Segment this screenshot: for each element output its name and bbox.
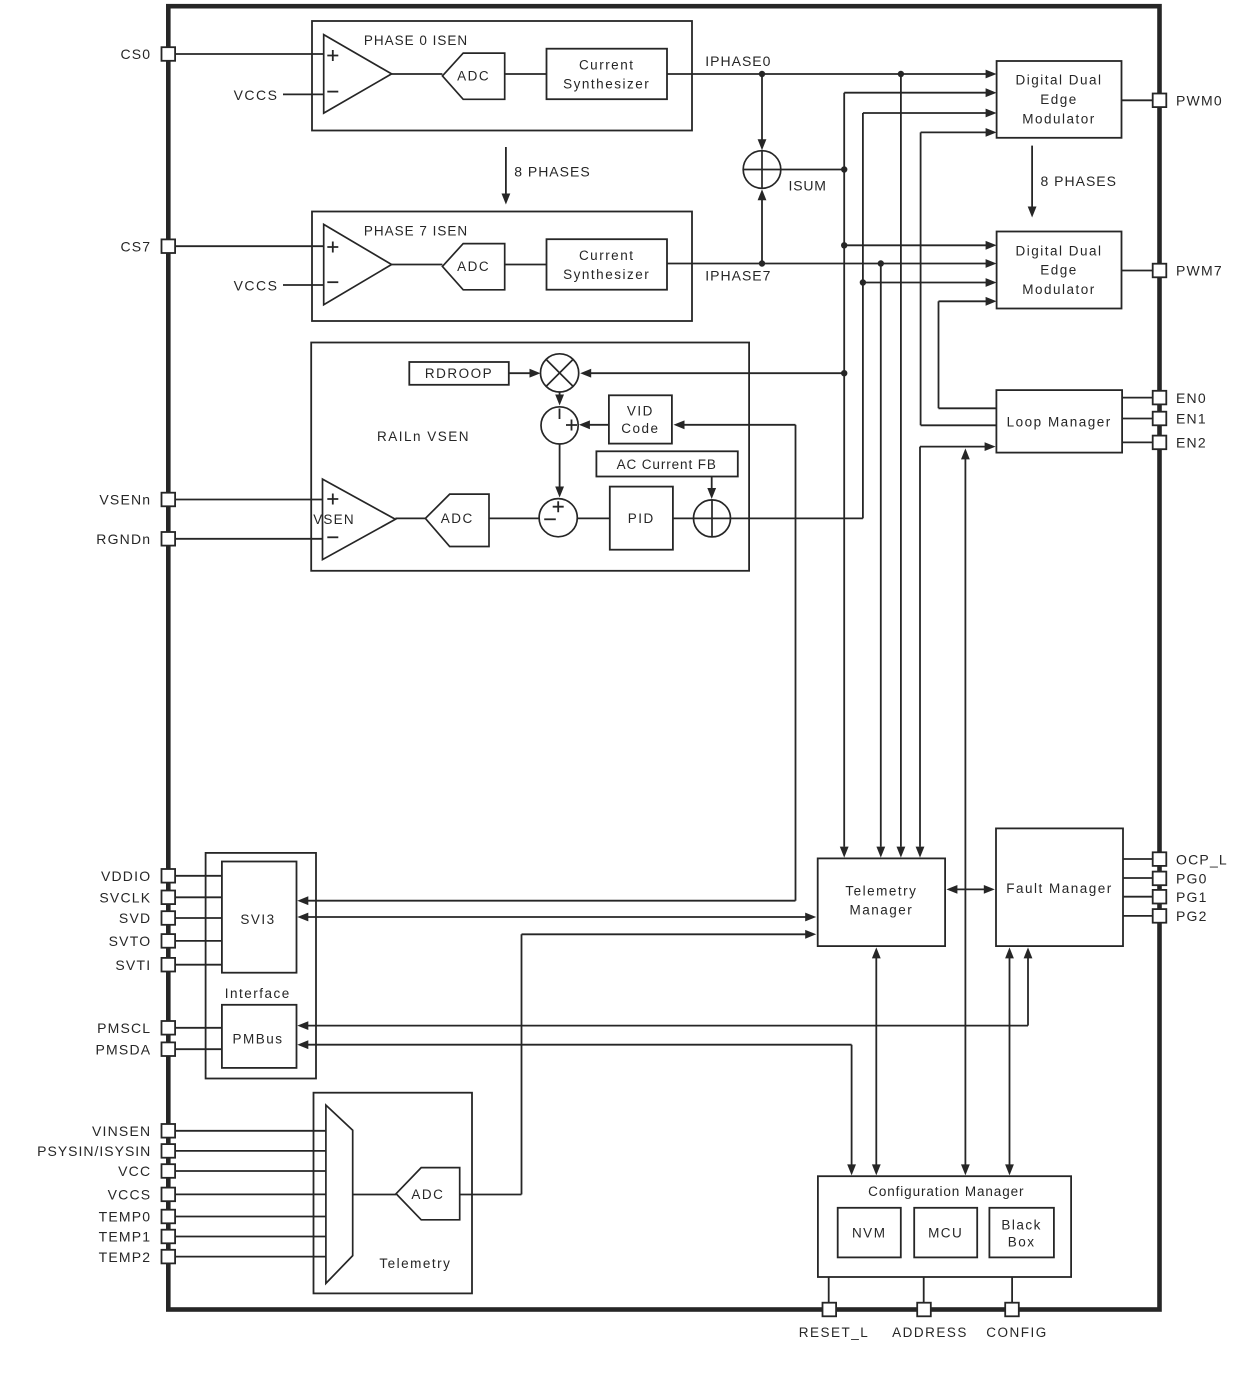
wire PG2	[1123, 915, 1154, 917]
svg-text:VSEN: VSEN	[313, 512, 355, 527]
svg-text:IPHASE0: IPHASE0	[705, 53, 771, 69]
svg-text:Black: Black	[1001, 1217, 1042, 1232]
RDROOP box	[409, 362, 509, 385]
svg-text:PHASE 7 ISEN: PHASE 7 ISEN	[364, 224, 468, 239]
svg-text:NVM: NVM	[852, 1226, 887, 1241]
svg-text:SVD: SVD	[119, 910, 151, 926]
wire Loop Manager row2 horizontal	[921, 424, 997, 426]
wire ADC to summer2	[489, 517, 540, 519]
wire Loop Manager to modulator0 input4 vertical	[920, 132, 922, 425]
block PHASE 0 ISEN outline	[312, 21, 692, 131]
wire ADC to Current Synthesizer phase0	[505, 73, 547, 75]
pin PG0	[1153, 871, 1208, 887]
wire PMBus-CM vertical	[851, 1045, 853, 1170]
svg-text:PG0: PG0	[1176, 871, 1208, 887]
adder AC current node	[694, 500, 731, 537]
wire telemetry ADC output	[460, 1194, 522, 1196]
wire ISUM to multiplier	[590, 372, 845, 374]
arrow 8 PHASES between modulators	[1028, 146, 1117, 218]
svg-text:VCCS: VCCS	[234, 87, 279, 103]
arrow 8 PHASES between ISEN blocks	[502, 147, 591, 205]
wire VCCS to op-amp -	[283, 93, 324, 95]
wire PMSDA to PMBus	[168, 1048, 222, 1050]
wire AC Current FB to adder	[711, 477, 713, 492]
telemetry input mux trapezoid	[326, 1105, 353, 1283]
multiplier droop X node	[541, 354, 579, 392]
svg-text:RDROOP: RDROOP	[425, 366, 493, 381]
wire telemetry ADC vertical	[521, 934, 523, 1194]
svg-text:PMBus: PMBus	[232, 1032, 283, 1047]
wire PMSCL to PMBus	[168, 1027, 222, 1029]
wire op-amp to ADC phase0	[392, 73, 443, 75]
svg-text:CONFIG: CONFIG	[986, 1325, 1048, 1340]
block SVI3	[222, 862, 297, 973]
wire ISUM output	[781, 169, 844, 171]
block Loop Manager	[996, 390, 1122, 453]
pin CONFIG	[986, 1303, 1048, 1340]
svg-text:VCCS: VCCS	[234, 277, 279, 293]
wire CONFIG stub	[1011, 1277, 1013, 1303]
pin PSYSIN/ISYSIN	[37, 1143, 175, 1159]
wire Loop Manager row1 horizontal	[939, 407, 997, 409]
wire VINSEN to mux	[168, 1130, 326, 1132]
svg-text:VCC: VCC	[118, 1163, 151, 1179]
svg-text:PWM0: PWM0	[1176, 93, 1223, 109]
svg-text:Fault Manager: Fault Manager	[1006, 881, 1113, 896]
svg-text:Edge: Edge	[1040, 92, 1078, 107]
wire PID output to bus	[731, 517, 863, 519]
wire VSENn to VSEN amp +	[168, 499, 323, 501]
svg-text:RESET_L: RESET_L	[799, 1325, 870, 1340]
svg-text:PMSCL: PMSCL	[97, 1020, 151, 1036]
wire TEMP2 to mux	[168, 1256, 326, 1258]
svg-text:IPHASE7: IPHASE7	[705, 268, 771, 284]
wire ADDRESS stub	[923, 1277, 925, 1303]
op-amp PHASE7 current sense	[324, 224, 392, 304]
wire ISUM bus vertical to Telemetry Manager	[843, 93, 845, 847]
svg-text:EN2: EN2	[1176, 435, 1207, 451]
AC Current FB box	[596, 451, 737, 476]
wire summer2 to PID	[577, 517, 610, 519]
svg-text:PHASE 0 ISEN: PHASE 0 ISEN	[364, 33, 468, 48]
svg-text:TEMP2: TEMP2	[99, 1249, 152, 1265]
ADC VSEN	[425, 494, 489, 546]
wire RESET_L stub	[828, 1277, 830, 1303]
chip outline border	[168, 6, 1159, 1309]
wire PG0	[1123, 877, 1154, 879]
pin VDDIO	[101, 868, 175, 884]
junction IPHASE7 to ISUM	[759, 260, 765, 266]
pin TEMP1	[99, 1229, 175, 1245]
svg-text:8 PHASES: 8 PHASES	[514, 163, 590, 179]
wire Telemetry Manager to Fault Manager bidirectional	[955, 888, 986, 890]
wire Telemetry Manager to Configuration Manager vertical	[875, 956, 877, 1170]
pin SVTO	[109, 933, 175, 949]
junction PID bus to modulator7 input3	[860, 279, 866, 285]
svg-text:Interface: Interface	[225, 986, 291, 1001]
wire TEMP1 to mux	[168, 1236, 326, 1238]
wire SVI3 net to VID Code	[682, 424, 796, 426]
wire VCC to mux	[168, 1170, 326, 1172]
wire EN0	[1122, 397, 1153, 399]
MCU box	[914, 1208, 977, 1258]
wire Loop Manager row3 horizontal	[920, 446, 988, 448]
wire PID output vertical bus	[862, 113, 864, 518]
wire to modulator0 input4	[921, 131, 990, 133]
wire ISUM bus to modulator0 input2	[844, 92, 990, 94]
svg-text:Synthesizer: Synthesizer	[563, 77, 650, 92]
block Telemetry Manager	[818, 858, 945, 946]
svg-text:Modulator: Modulator	[1022, 282, 1096, 297]
wire op-amp to ADC phase7	[392, 264, 443, 266]
pin EN1	[1153, 411, 1207, 427]
junction IPHASE0 to telemetry bus	[898, 71, 904, 77]
svg-text:AC Current FB: AC Current FB	[617, 457, 717, 472]
wire IPHASE0 down into ISUM	[761, 74, 763, 140]
op-amp VSEN differential	[313, 479, 395, 559]
wire IPHASE0 bus vertical to Telemetry Manager	[900, 74, 902, 847]
block Digital Dual Edge Modulator 7	[997, 232, 1122, 309]
summing node error	[539, 499, 577, 537]
pin VINSEN	[92, 1123, 175, 1139]
svg-text:Current: Current	[579, 58, 635, 73]
block PMBus	[222, 1005, 297, 1068]
wire VCCS to op-amp - phase7	[283, 284, 324, 286]
svg-text:PMSDA: PMSDA	[96, 1041, 152, 1057]
pin SVTI	[115, 957, 175, 973]
junction ISUM bus to droop multiplier	[841, 370, 847, 376]
svg-text:TEMP1: TEMP1	[99, 1229, 152, 1245]
Black Box box	[989, 1208, 1054, 1258]
svg-text:Manager: Manager	[850, 903, 914, 918]
ADC telemetry	[396, 1168, 460, 1220]
junction ISUM bus to modulator7 input1	[841, 242, 847, 248]
svg-text:SVTO: SVTO	[109, 933, 152, 949]
svg-text:Synthesizer: Synthesizer	[563, 267, 650, 282]
block Interface outline	[206, 853, 316, 1079]
wire EN1	[1122, 418, 1153, 420]
svg-text:VINSEN: VINSEN	[92, 1123, 151, 1139]
wire PSYSIN to mux	[168, 1150, 326, 1152]
op-amp PHASE0 current sense	[324, 35, 392, 114]
block Configuration Manager	[818, 1176, 1071, 1277]
block Fault Manager	[996, 828, 1123, 946]
wire Loop Manager to modulator7 input4 vertical	[938, 301, 940, 408]
pin PG2	[1153, 908, 1208, 924]
svg-text:VID: VID	[627, 404, 654, 419]
pin PWM0	[1153, 93, 1223, 109]
svg-text:ADC: ADC	[441, 511, 474, 526]
svg-text:PG1: PG1	[1176, 889, 1208, 905]
wire RDROOP to multiplier	[509, 372, 532, 374]
svg-text:ADC: ADC	[457, 69, 490, 84]
wire ADC to Current Synthesizer phase7	[505, 264, 547, 266]
svg-text:Current: Current	[579, 248, 635, 263]
wire SVD to SVI3	[168, 917, 222, 919]
pin PWM7	[1153, 263, 1223, 279]
wire SVCLK to SVI3	[168, 896, 222, 898]
svg-text:MCU: MCU	[928, 1226, 963, 1241]
svg-text:CS7: CS7	[120, 238, 151, 254]
pin CS7	[120, 238, 175, 254]
pin VCC	[118, 1163, 175, 1179]
wire PG1	[1123, 896, 1154, 898]
wire PWM7 output	[1122, 270, 1154, 272]
wire SVI3 to Telemetry Manager bidirectional	[303, 916, 810, 918]
pin PMSCL	[97, 1020, 175, 1036]
wire TEMP0 to mux	[168, 1216, 326, 1218]
wire to modulator7 input4	[939, 300, 991, 302]
wire PMBus to Fault Manager net	[303, 1025, 1028, 1027]
Current Synthesizer PHASE7	[547, 239, 668, 290]
svg-text:VCCS: VCCS	[108, 1187, 152, 1203]
wire VID net into SVI3	[303, 900, 796, 902]
svg-text:8 PHASES: 8 PHASES	[1041, 173, 1117, 189]
wire PID bus to modulator7 input3	[863, 282, 990, 284]
pin CS0	[120, 46, 175, 62]
pin SVCLK	[99, 890, 175, 906]
wire SVTO to SVI3	[168, 940, 222, 942]
wire IPHASE7 net	[667, 263, 990, 265]
pin VSENn	[99, 492, 175, 508]
wire RGNDn to VSEN amp -	[168, 538, 323, 540]
PID box	[610, 487, 673, 550]
svg-text:ADDRESS: ADDRESS	[892, 1325, 968, 1340]
svg-text:Modulator: Modulator	[1022, 111, 1096, 126]
svg-text:ISUM: ISUM	[789, 178, 827, 194]
svg-text:ADC: ADC	[411, 1187, 444, 1202]
pin RGNDn	[96, 531, 175, 547]
wire PMBus to Configuration Manager net	[303, 1044, 852, 1046]
pin VCCS	[108, 1187, 176, 1203]
wire VCCS to mux	[168, 1193, 326, 1195]
wire EN2	[1122, 441, 1153, 443]
wire Loop Manager row3 to Telemetry Manager vertical	[919, 447, 921, 847]
pin RESET_L	[799, 1303, 870, 1340]
pin OCP_L	[1153, 851, 1228, 867]
wire IPHASE7 up into ISUM	[761, 200, 763, 264]
wire VID Code to summer1	[587, 424, 609, 426]
pin PG1	[1153, 889, 1208, 905]
pin SVD	[119, 910, 175, 926]
pin EN2	[1153, 435, 1207, 451]
svg-text:Telemetry: Telemetry	[379, 1256, 451, 1271]
svg-text:Digital Dual: Digital Dual	[1015, 243, 1102, 258]
wire VDDIO to SVI3	[168, 875, 222, 877]
wire IPHASE0 net	[667, 73, 990, 75]
Current Synthesizer PHASE0	[547, 49, 668, 99]
pin TEMP0	[99, 1209, 175, 1225]
wire CS0 to op-amp +	[168, 53, 324, 55]
summing node VID minus droop	[541, 407, 578, 444]
wire OCP_L	[1123, 858, 1154, 860]
pin TEMP2	[99, 1249, 175, 1265]
svg-text:Loop Manager: Loop Manager	[1007, 415, 1112, 430]
svg-text:Edge: Edge	[1040, 263, 1078, 278]
svg-text:PID: PID	[628, 511, 655, 526]
block Digital Dual Edge Modulator 0	[997, 61, 1122, 138]
wire multiplier to summer1	[559, 392, 561, 398]
wire Configuration Manager to Loop Manager row3 vertical	[964, 459, 966, 1170]
svg-text:EN1: EN1	[1176, 411, 1207, 427]
pin EN0	[1153, 390, 1207, 406]
wire PMBus-FM vertical	[1027, 956, 1029, 1026]
svg-text:Code: Code	[621, 421, 659, 436]
ADC PHASE7	[442, 244, 504, 290]
svg-text:VDDIO: VDDIO	[101, 868, 151, 884]
wire mux to telemetry ADC	[353, 1194, 396, 1196]
svg-text:SVCLK: SVCLK	[99, 890, 151, 906]
svg-text:PG2: PG2	[1176, 908, 1208, 924]
wire summer1 to summer2	[559, 444, 561, 490]
wire CS7 to op-amp +	[168, 245, 324, 247]
wire Fault Manager to Configuration Manager vertical	[1009, 956, 1011, 1170]
svg-text:ADC: ADC	[457, 259, 490, 274]
svg-text:SVTI: SVTI	[115, 957, 151, 973]
block PHASE 7 ISEN outline	[312, 212, 692, 322]
svg-text:TEMP0: TEMP0	[99, 1209, 152, 1225]
NVM box	[838, 1208, 901, 1258]
wire telemetry ADC to Telemetry Manager	[522, 933, 811, 935]
junction IPHASE7 to telemetry bus	[878, 260, 884, 266]
svg-text:EN0: EN0	[1176, 390, 1207, 406]
ADC PHASE0	[442, 53, 504, 99]
wire VSEN amp to ADC	[395, 517, 425, 519]
block Telemetry outline	[314, 1093, 473, 1294]
svg-text:CS0: CS0	[120, 46, 151, 62]
summing node ISUM	[743, 151, 781, 189]
svg-text:Box: Box	[1008, 1235, 1036, 1250]
block RAILn VSEN outline	[311, 343, 749, 571]
svg-text:Digital Dual: Digital Dual	[1015, 73, 1102, 88]
wire SVTI to SVI3	[168, 964, 222, 966]
wire VID net vertical	[795, 425, 797, 901]
svg-text:PSYSIN/ISYSIN: PSYSIN/ISYSIN	[37, 1143, 151, 1159]
svg-text:Configuration Manager: Configuration Manager	[868, 1184, 1024, 1199]
junction IPHASE0 to ISUM	[759, 71, 765, 77]
wire PWM0 output	[1122, 99, 1154, 101]
wire IPHASE7 bus vertical to Telemetry Manager	[880, 264, 882, 847]
svg-text:Telemetry: Telemetry	[845, 884, 917, 899]
svg-text:SVI3: SVI3	[240, 912, 275, 927]
svg-text:PWM7: PWM7	[1176, 263, 1223, 279]
VID Code box	[609, 395, 672, 443]
pin ADDRESS	[892, 1303, 968, 1340]
svg-text:RAILn VSEN: RAILn VSEN	[377, 429, 470, 444]
pin PMSDA	[96, 1041, 176, 1057]
svg-text:OCP_L: OCP_L	[1176, 851, 1228, 867]
svg-text:VSENn: VSENn	[99, 492, 151, 508]
wire PID bus to modulator0 input3	[863, 112, 990, 114]
wire ISUM bus to modulator7 input1	[844, 244, 990, 246]
wire PID to adder	[673, 517, 694, 519]
svg-text:RGNDn: RGNDn	[96, 531, 151, 547]
junction ISUM on vertical bus	[841, 166, 847, 172]
